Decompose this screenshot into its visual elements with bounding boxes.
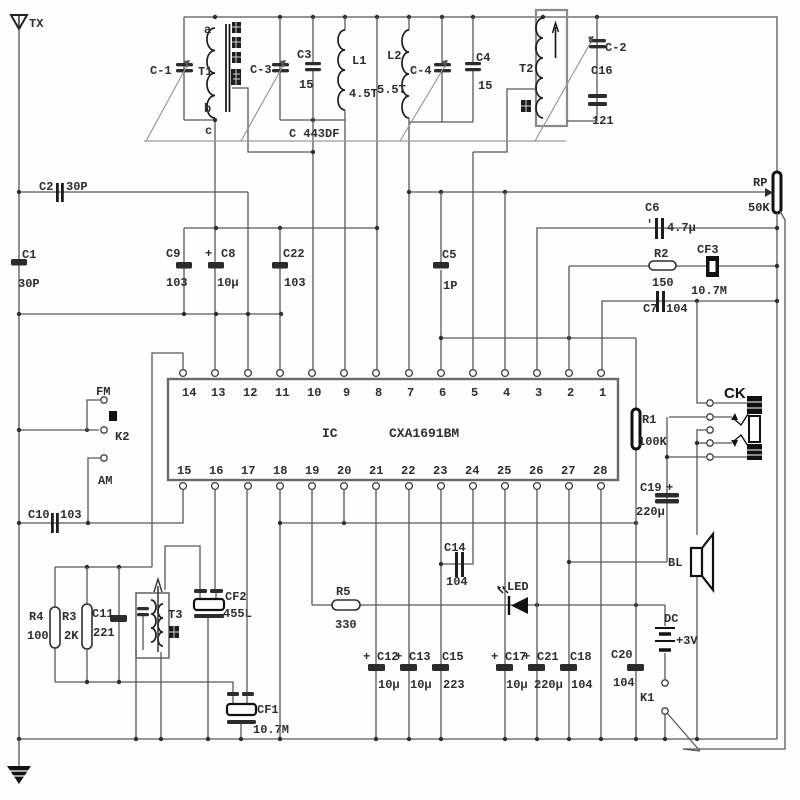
wire RP right rail lower — [776, 213, 778, 739]
label 黑 (black) glyph block — [169, 626, 179, 638]
capacitor C20 104 — [611, 605, 644, 739]
capacitor C12 10u on pin21 — [363, 490, 400, 739]
svg-text:T3: T3 — [168, 608, 182, 622]
svg-text:C22: C22 — [283, 247, 305, 261]
wire R2 line y266 — [569, 265, 777, 267]
wire FM tank bottom — [409, 121, 473, 123]
svg-text:CXA1691BM: CXA1691BM — [389, 426, 459, 441]
svg-text:8: 8 — [375, 386, 382, 400]
wire ground bus y739 — [19, 738, 777, 740]
capacitor C-2 (variable) branch — [596, 17, 598, 121]
capacitor C3 15 — [297, 17, 321, 120]
switch K1 — [640, 680, 700, 751]
svg-text:C2: C2 — [39, 180, 53, 194]
svg-text:C20: C20 — [611, 648, 633, 662]
svg-text:50K: 50K — [748, 201, 770, 215]
wire top bus — [184, 17, 777, 173]
wire y338 line C5/pin2/R1 — [441, 337, 636, 339]
svg-text:104: 104 — [666, 302, 688, 316]
svg-text:C6: C6 — [645, 201, 659, 215]
wire pin8 riser — [376, 17, 378, 369]
LED — [497, 580, 529, 615]
svg-text:23: 23 — [433, 464, 447, 478]
gang capacitor link line C 443DF — [144, 140, 566, 142]
wire C-1 branch left side of T1 — [183, 17, 185, 120]
svg-text:100: 100 — [27, 629, 49, 643]
headphone jack CK — [665, 301, 762, 535]
wire pin12 riser — [247, 192, 249, 369]
wire pin18 riser and y523 bus right — [279, 490, 281, 739]
svg-text:16: 16 — [209, 464, 223, 478]
svg-text:10µ: 10µ — [378, 678, 400, 692]
capacitor C1 30P on antenna rail — [11, 248, 40, 291]
svg-text:RP: RP — [753, 176, 767, 190]
svg-text:28: 28 — [593, 464, 607, 478]
ceramic filter CF3 10.7M — [691, 243, 727, 298]
wire pin28 riser — [600, 490, 602, 739]
svg-text:C3: C3 — [297, 48, 311, 62]
svg-text:150: 150 — [652, 276, 674, 290]
svg-text:4.5T: 4.5T — [349, 87, 378, 101]
wire pin2 riser — [568, 266, 570, 369]
svg-text:2: 2 — [567, 386, 574, 400]
svg-text:15: 15 — [478, 79, 492, 93]
resistor R1 100K — [632, 338, 668, 449]
capacitor C14 104 stub on pin24 — [439, 490, 473, 589]
svg-text:CF3: CF3 — [697, 243, 719, 257]
wire AM tank bottom — [280, 119, 345, 121]
svg-text:7: 7 — [407, 386, 414, 400]
ceramic filter CF1 10.7M — [227, 490, 289, 739]
svg-text:T1: T1 — [198, 65, 212, 79]
wire R4 bottom line y682 to CF1 — [55, 682, 233, 694]
wire pin19 riser to R5 line — [311, 490, 313, 605]
ceramic filter CF2 455L — [194, 490, 252, 739]
label 磁棒线圈 (ferrite rod coil) drawn as glyph blocks — [231, 22, 241, 85]
svg-text:25: 25 — [497, 464, 511, 478]
svg-text:+: + — [523, 650, 530, 664]
capacitor C9 103 — [166, 228, 192, 314]
wire antenna coupling line y192 — [19, 191, 248, 193]
wire pin9 riser — [344, 120, 346, 369]
svg-text:24: 24 — [465, 464, 479, 478]
wire pin20 stub — [343, 490, 345, 523]
svg-text:AM: AM — [98, 474, 112, 488]
wire pin14 elbow to x152 — [152, 353, 183, 567]
svg-text:C 443DF: C 443DF — [289, 127, 339, 141]
capacitor C10 103 — [28, 508, 82, 533]
inductor L2 5.5T — [377, 17, 409, 122]
capacitor C18 104 on pin27 — [560, 490, 593, 739]
svg-text:30P: 30P — [66, 180, 88, 194]
IC bottom pin circles and numbers 15..28 — [177, 464, 607, 489]
wire R5/LED supply line y605 — [312, 604, 665, 606]
svg-text:C7: C7 — [643, 302, 657, 316]
wire pin4 riser — [504, 192, 506, 369]
wire pin3 riser and C6 line y228 — [537, 228, 777, 369]
capacitor C11 221 — [92, 567, 127, 682]
resistor R3 2K — [62, 567, 92, 682]
svg-text:LED: LED — [507, 580, 529, 594]
gang link diagonal to C-2 — [535, 36, 594, 141]
svg-text:DC: DC — [664, 612, 678, 626]
svg-text:30P: 30P — [18, 277, 40, 291]
svg-text:C11: C11 — [92, 607, 114, 621]
svg-text:10µ: 10µ — [410, 678, 432, 692]
svg-text:+3V: +3V — [676, 634, 698, 648]
svg-text:BL: BL — [668, 556, 682, 570]
svg-text:104: 104 — [613, 676, 635, 690]
svg-text:17: 17 — [241, 464, 255, 478]
wire mid line y192 right segment — [409, 191, 506, 193]
svg-text:+: + — [205, 247, 212, 261]
svg-text:C5: C5 — [442, 248, 456, 262]
svg-text:15: 15 — [177, 464, 191, 478]
svg-text:10: 10 — [307, 386, 321, 400]
svg-text:b: b — [204, 102, 211, 116]
transformer T1 with ferrite rod coil — [184, 23, 230, 138]
svg-text:10.7M: 10.7M — [691, 284, 727, 298]
wire speaker line y562 from pin27 — [569, 561, 667, 563]
svg-text:K1: K1 — [640, 691, 654, 705]
wire pin11 riser — [279, 314, 281, 369]
svg-text:3: 3 — [535, 386, 542, 400]
inductor L1 4.5T — [338, 17, 378, 120]
wire left antenna rail — [18, 29, 20, 739]
svg-text:223: 223 — [443, 678, 465, 692]
capacitor C-4 (variable) — [410, 17, 451, 122]
svg-text:220µ: 220µ — [534, 678, 563, 692]
svg-text:12: 12 — [243, 386, 257, 400]
svg-text:C-4: C-4 — [410, 64, 432, 78]
svg-text:11: 11 — [275, 386, 289, 400]
svg-text:19: 19 — [305, 464, 319, 478]
transformer T3 (black IF/osc coil) — [136, 579, 182, 658]
svg-text:10µ: 10µ — [217, 276, 239, 290]
ground symbol — [7, 739, 31, 784]
svg-text:R1: R1 — [642, 413, 656, 427]
battery DC +3V — [655, 605, 698, 679]
svg-text:13: 13 — [211, 386, 225, 400]
resistor R2 150 — [649, 247, 676, 290]
svg-text:C-1: C-1 — [150, 64, 172, 78]
svg-text:C14: C14 — [444, 541, 466, 555]
svg-text:9: 9 — [343, 386, 350, 400]
speaker BL — [668, 534, 713, 739]
svg-text:C-3: C-3 — [250, 63, 272, 77]
capacitor C-1 (variable) — [150, 63, 193, 78]
antenna TX — [11, 15, 44, 31]
svg-text:CF2: CF2 — [225, 590, 247, 604]
svg-text:c: c — [205, 124, 212, 138]
svg-text:C15: C15 — [442, 650, 464, 664]
wire C10 line y523 to pin15 — [19, 490, 183, 523]
svg-text:C4: C4 — [476, 51, 490, 65]
svg-text:C21: C21 — [537, 650, 559, 664]
svg-text:5.5T: 5.5T — [377, 83, 406, 97]
gang link diagonal to C-3 — [241, 60, 286, 141]
svg-text:100K: 100K — [638, 435, 668, 449]
svg-text:R3: R3 — [62, 610, 76, 624]
svg-text:FM: FM — [96, 385, 110, 399]
svg-text:103: 103 — [60, 508, 82, 522]
svg-text:1: 1 — [599, 386, 606, 400]
svg-text:CF1: CF1 — [257, 703, 279, 717]
svg-text:': ' — [646, 218, 653, 232]
svg-text:21: 21 — [369, 464, 383, 478]
svg-text:22: 22 — [401, 464, 415, 478]
wire pin5 riser — [472, 152, 474, 369]
svg-text:L1: L1 — [352, 54, 366, 68]
svg-text:14: 14 — [182, 386, 196, 400]
node dots on top bus — [213, 15, 599, 19]
svg-text:+: + — [363, 650, 370, 664]
svg-text:10µ: 10µ — [506, 678, 528, 692]
svg-text:27: 27 — [561, 464, 575, 478]
svg-text:221: 221 — [93, 626, 115, 640]
svg-text:R4: R4 — [29, 610, 43, 624]
svg-text:C18: C18 — [570, 650, 592, 664]
svg-text:10.7M: 10.7M — [253, 723, 289, 737]
wire T1 secondary tap to pin10 path — [232, 88, 313, 152]
svg-text:IC: IC — [322, 426, 338, 441]
capacitor C7 104 — [643, 291, 688, 316]
IC top pin circles and numbers 14..1 — [180, 370, 607, 400]
svg-text:+: + — [491, 650, 498, 664]
svg-text:220µ: 220µ — [636, 505, 665, 519]
svg-text:C16: C16 — [591, 64, 613, 78]
svg-text:C13: C13 — [409, 650, 431, 664]
svg-text:R5: R5 — [336, 585, 350, 599]
wire pin6 riser — [440, 338, 442, 369]
svg-text:330: 330 — [335, 618, 357, 632]
capacitor C15 223 on pin23 — [432, 490, 465, 739]
capacitor C19 220u — [636, 417, 679, 562]
svg-text:C9: C9 — [166, 247, 180, 261]
capacitor C2 30P — [39, 180, 88, 202]
wire pin1 riser and C7 line y301 — [602, 301, 777, 369]
wire pin13 riser from T1 bottom — [214, 120, 216, 369]
wire pin10 riser — [312, 120, 314, 369]
potentiometer RP 50K — [506, 172, 781, 215]
wire bypass bus y228 left — [184, 227, 377, 229]
resistor R5 330 — [332, 585, 360, 632]
svg-text:104: 104 — [446, 575, 468, 589]
capacitor C-3 branch (variable) — [279, 17, 281, 120]
svg-text:L2: L2 — [387, 49, 401, 63]
capacitor C21 220u on pin26 — [523, 490, 563, 739]
wire R1 descender x636 — [635, 449, 637, 605]
wire R4/R3/C11 top line y567 — [55, 566, 152, 568]
svg-text:C19: C19 — [640, 481, 662, 495]
capacitor C8 10u (on pin13 riser) — [205, 247, 239, 290]
svg-text:CK: CK — [724, 385, 746, 402]
wire RP wiper rail x785 — [683, 211, 785, 749]
svg-text:20: 20 — [337, 464, 351, 478]
wire ground-ish bus y314 — [19, 313, 281, 315]
capacitor C6 4.7u — [645, 201, 696, 239]
svg-text:103: 103 — [166, 276, 188, 290]
svg-text:C-2: C-2 — [605, 41, 627, 55]
wire T3 top to CF2 left — [165, 546, 200, 592]
resistor R4 100 — [27, 567, 60, 682]
svg-text:R2: R2 — [654, 247, 668, 261]
svg-text:2K: 2K — [64, 629, 79, 643]
svg-text:6: 6 — [439, 386, 446, 400]
switch K2 FM/AM — [17, 385, 130, 523]
capacitor C4 15 — [465, 17, 492, 122]
transformer T2 (red IF) — [519, 10, 567, 126]
svg-text:15: 15 — [299, 78, 313, 92]
label 红 (red) glyph block — [521, 100, 531, 112]
capacitor C5 1P branch — [433, 192, 457, 338]
svg-text:TX: TX — [29, 17, 44, 31]
svg-text:C10: C10 — [28, 508, 50, 522]
svg-text:C8: C8 — [221, 247, 235, 261]
IC U1 CXA1691BM body — [168, 379, 618, 480]
svg-text:a: a — [204, 23, 211, 37]
svg-text:+: + — [395, 650, 402, 664]
gang link diagonal to C-1 — [146, 60, 190, 141]
svg-text:+: + — [666, 481, 673, 495]
svg-text:5: 5 — [471, 386, 478, 400]
capacitor C13 10u on pin22 — [395, 490, 432, 739]
capacitor C22 103 — [272, 228, 306, 314]
wire pin7 riser — [408, 122, 410, 369]
gang link diagonal to C-4 — [400, 60, 448, 141]
wire T2 tap to pin5 path — [473, 89, 536, 152]
svg-text:103: 103 — [284, 276, 306, 290]
svg-text:104: 104 — [571, 678, 593, 692]
svg-text:C1: C1 — [22, 248, 36, 262]
svg-text:T2: T2 — [519, 62, 533, 76]
svg-text:K2: K2 — [115, 430, 129, 444]
svg-text:26: 26 — [529, 464, 543, 478]
svg-text:18: 18 — [273, 464, 287, 478]
capacitor C17 10u on pin25 — [491, 490, 528, 739]
wire T3 bottom leads — [135, 650, 137, 739]
capacitor C16 121 — [588, 64, 614, 128]
svg-text:1P: 1P — [443, 279, 457, 293]
wire C16 bottom to T2 — [567, 120, 597, 122]
svg-text:4: 4 — [503, 386, 510, 400]
svg-text:4.7µ: 4.7µ — [667, 221, 696, 235]
